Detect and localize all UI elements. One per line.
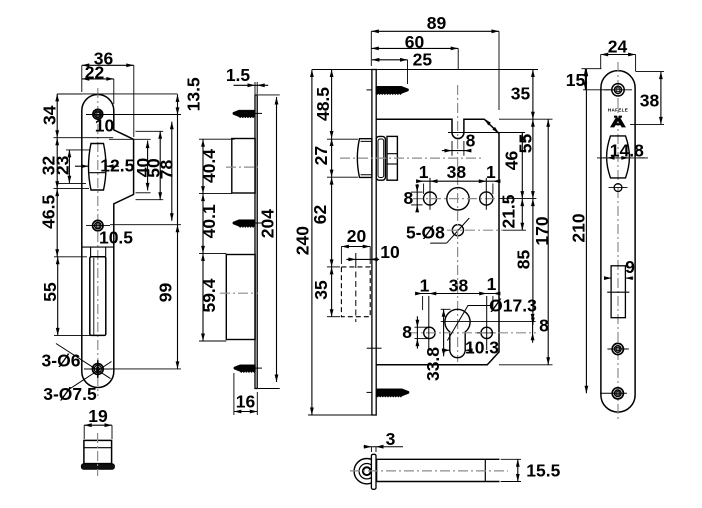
dim 24 bbox=[601, 54, 636, 56]
side plate body bbox=[255, 95, 257, 389]
latch bar flange bbox=[371, 454, 376, 489]
svg-text:55: 55 bbox=[516, 134, 536, 154]
dim 13.5 and 99 line bbox=[177, 94, 179, 369]
dim 78 bbox=[171, 122, 173, 221]
lower cutout inner line bbox=[93, 258, 95, 335]
svg-text:40.4: 40.4 bbox=[199, 149, 219, 183]
svg-text:46.5: 46.5 bbox=[39, 195, 59, 229]
row1 centerline bbox=[413, 198, 497, 200]
main vertical centerline bbox=[457, 85, 459, 362]
dim 170 bbox=[547, 119, 549, 365]
upper box centerline bbox=[226, 166, 258, 168]
dim 46 bbox=[521, 133, 523, 199]
front bottom hole bbox=[612, 388, 623, 399]
svg-text:1: 1 bbox=[420, 276, 430, 296]
svg-text:10.3: 10.3 bbox=[465, 338, 499, 358]
latch bar end line bbox=[484, 459, 486, 481]
svg-text:23: 23 bbox=[53, 155, 73, 175]
svg-text:27: 27 bbox=[311, 146, 331, 165]
cup base bbox=[81, 464, 114, 469]
dim 48.5 bbox=[331, 70, 333, 139]
dim 35 right bbox=[532, 70, 534, 120]
svg-text:1: 1 bbox=[419, 162, 429, 182]
dim 20 bbox=[341, 246, 370, 248]
dim 40 bbox=[147, 141, 149, 191]
dim 34 bbox=[56, 94, 58, 138]
svg-text:46: 46 bbox=[502, 151, 522, 171]
dashed box centerline bbox=[355, 262, 357, 322]
bottom hole centerline bbox=[85, 368, 112, 370]
hidden box top line bbox=[82, 246, 115, 248]
svg-text:210: 210 bbox=[569, 213, 589, 242]
svg-text:24: 24 bbox=[608, 37, 628, 57]
dim 19 bbox=[84, 424, 112, 426]
dim 27 bbox=[331, 139, 333, 178]
dim 46.5 bbox=[56, 189, 58, 257]
front bolt inner line bbox=[607, 291, 629, 293]
latch cutout barrel bbox=[89, 144, 107, 191]
dim 22 bbox=[82, 78, 114, 80]
dim 15 right view bbox=[584, 69, 586, 90]
top hole centerline bbox=[86, 114, 110, 116]
svg-text:55: 55 bbox=[40, 282, 60, 302]
svg-text:3: 3 bbox=[386, 429, 396, 449]
side screw top bbox=[233, 110, 255, 118]
svg-text:99: 99 bbox=[155, 283, 175, 303]
lower box centerline bbox=[220, 292, 258, 294]
dim 16 bbox=[234, 411, 257, 413]
faceplate top ext line bbox=[312, 69, 538, 71]
svg-text:8: 8 bbox=[539, 316, 549, 336]
dim 1.5 bbox=[234, 84, 269, 86]
svg-text:12.5: 12.5 bbox=[100, 156, 134, 176]
svg-text:3-Ø6: 3-Ø6 bbox=[42, 351, 81, 371]
dim 32 bbox=[56, 138, 58, 189]
dim 38 right view bbox=[660, 72, 662, 125]
svg-text:34: 34 bbox=[40, 105, 60, 125]
cup outline bbox=[84, 440, 112, 463]
svg-text:22: 22 bbox=[85, 63, 105, 83]
latch bar centerline bbox=[350, 470, 508, 472]
svg-text:10: 10 bbox=[95, 116, 115, 136]
row2 left hole bbox=[424, 327, 435, 338]
svg-text:38: 38 bbox=[640, 91, 660, 111]
svg-text:85: 85 bbox=[514, 250, 534, 270]
svg-text:40.1: 40.1 bbox=[199, 204, 219, 238]
svg-text:15: 15 bbox=[566, 70, 586, 90]
lock case outline bbox=[376, 119, 499, 365]
svg-text:20: 20 bbox=[347, 226, 367, 246]
svg-text:62: 62 bbox=[310, 205, 330, 225]
case bottom screw bbox=[376, 389, 409, 398]
strike plate centerline bbox=[97, 88, 99, 396]
latch bar head bbox=[354, 459, 379, 484]
svg-text:240: 240 bbox=[293, 226, 313, 255]
dim 89 bbox=[371, 30, 499, 32]
svg-text:1.5: 1.5 bbox=[226, 65, 251, 85]
svg-text:21.5: 21.5 bbox=[499, 194, 519, 228]
dim 55 left bbox=[57, 257, 59, 336]
dashed box bbox=[341, 267, 370, 317]
dim 55 right bbox=[532, 119, 534, 198]
svg-text:Ä: Ä bbox=[610, 115, 626, 130]
dim 60 bbox=[371, 47, 458, 49]
lower dust box bbox=[226, 255, 255, 340]
svg-text:89: 89 bbox=[427, 13, 447, 33]
front bolt cutout bbox=[611, 266, 625, 318]
dim 23 bbox=[68, 150, 70, 183]
dim 1 38 1 row2 bbox=[420, 293, 495, 295]
hole 5-O8 below spindle bbox=[452, 225, 463, 236]
svg-text:204: 204 bbox=[258, 209, 278, 238]
svg-text:25: 25 bbox=[413, 49, 433, 69]
dim 59.4 bbox=[202, 253, 204, 341]
front small hole bbox=[614, 184, 622, 192]
chamfer arrows bbox=[484, 119, 491, 126]
dim 35 left bbox=[331, 267, 333, 317]
row1 right hole bbox=[480, 192, 493, 205]
latch inner line bbox=[89, 172, 105, 174]
svg-text:16: 16 bbox=[236, 392, 256, 412]
strike plate bottom hole bbox=[92, 364, 103, 375]
svg-text:48.5: 48.5 bbox=[313, 87, 333, 121]
front plate centerline bbox=[617, 62, 619, 419]
svg-text:1: 1 bbox=[486, 162, 496, 182]
dim 210 bbox=[585, 69, 587, 394]
dim 204 bbox=[276, 97, 278, 382]
strike plate middle hole bbox=[93, 220, 103, 230]
svg-text:78: 78 bbox=[157, 160, 177, 180]
svg-text:9: 9 bbox=[625, 257, 635, 277]
svg-text:38: 38 bbox=[447, 162, 467, 182]
svg-text:19: 19 bbox=[88, 406, 108, 426]
dim 36 bbox=[82, 64, 134, 66]
dim 40.1 bbox=[202, 194, 204, 254]
latch head bbox=[357, 139, 372, 178]
spindle hole bbox=[447, 188, 469, 210]
upper dust box bbox=[232, 139, 255, 194]
dim 62 bbox=[331, 177, 333, 267]
svg-text:3-Ø7.5: 3-Ø7.5 bbox=[43, 384, 97, 404]
faceplate main bbox=[372, 70, 376, 416]
dim 21.5 bbox=[521, 199, 523, 231]
dim 25 bbox=[372, 59, 408, 61]
cup centerline bbox=[97, 433, 99, 476]
svg-text:33.8: 33.8 bbox=[423, 347, 443, 381]
row2 right hole bbox=[481, 327, 492, 338]
case top screw bbox=[376, 86, 409, 95]
dim 10 follower bbox=[346, 258, 379, 260]
latch bar bbox=[377, 459, 500, 481]
front latch centerline bbox=[603, 157, 645, 159]
cup inner line bbox=[84, 447, 112, 449]
svg-text:8: 8 bbox=[466, 130, 476, 150]
dim 240 bbox=[311, 70, 313, 416]
svg-text:35: 35 bbox=[311, 280, 331, 300]
svg-text:59.4: 59.4 bbox=[199, 278, 219, 312]
svg-text:10: 10 bbox=[380, 242, 400, 262]
svg-text:38: 38 bbox=[449, 276, 469, 296]
dim 50 bbox=[159, 131, 161, 199]
svg-text:35: 35 bbox=[511, 84, 531, 104]
svg-text:8: 8 bbox=[402, 322, 412, 342]
side screw middle bbox=[233, 220, 255, 228]
strike plate outline bbox=[82, 95, 134, 388]
front mid hole bbox=[612, 343, 623, 354]
front latch cutout bbox=[607, 136, 630, 178]
dim 12.5 bbox=[75, 165, 89, 167]
latch centerline bbox=[340, 157, 481, 159]
euro cylinder bbox=[445, 309, 470, 357]
svg-text:10.5: 10.5 bbox=[99, 228, 133, 248]
dim 1 38 1 row1 bbox=[417, 180, 498, 182]
dim 15.5 bbox=[517, 459, 519, 481]
svg-text:13.5: 13.5 bbox=[184, 77, 204, 111]
strike plate top hole bbox=[93, 109, 103, 119]
lower cutout rect bbox=[90, 257, 106, 336]
svg-text:170: 170 bbox=[532, 216, 552, 245]
svg-text:15.5: 15.5 bbox=[526, 461, 560, 481]
svg-text:HAFELE: HAFELE bbox=[608, 107, 628, 112]
latch guide bbox=[376, 136, 385, 180]
latch spring box bbox=[387, 136, 397, 180]
svg-text:1: 1 bbox=[487, 274, 497, 294]
row1 left hole bbox=[424, 192, 437, 205]
svg-text:5-Ø8: 5-Ø8 bbox=[406, 223, 445, 243]
side screw bottom bbox=[234, 365, 256, 373]
dim 40.4 bbox=[202, 139, 204, 193]
front plate top hole bbox=[612, 84, 624, 96]
faceplate mid hole tick bbox=[367, 347, 382, 349]
front plate outline bbox=[601, 71, 635, 412]
svg-text:Ø17.3: Ø17.3 bbox=[489, 296, 537, 316]
row2 centerline bbox=[408, 332, 536, 334]
dim 85 bbox=[532, 199, 534, 325]
middle hole centerline bbox=[86, 225, 110, 227]
